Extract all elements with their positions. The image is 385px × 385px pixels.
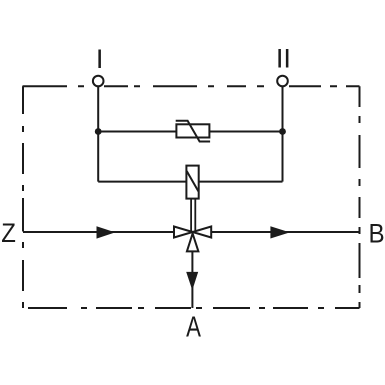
- open triangle below valve: [187, 234, 199, 252]
- port I circle: [93, 76, 104, 87]
- wire from port I down to lower rail: [97, 87, 99, 182]
- enclosure border left (dash-dot): [22, 86, 24, 308]
- enclosure border top (dash-dot): [23, 85, 360, 87]
- junction dot left: [95, 128, 102, 135]
- flow arrow on B wire: [270, 226, 289, 238]
- wire valve to B: [211, 231, 359, 233]
- wire from port II down to lower rail: [282, 87, 284, 182]
- double-line stem right: [194, 199, 196, 231]
- metering valve body: [186, 166, 198, 199]
- double-line stem left: [190, 199, 192, 231]
- junction dot right: [279, 128, 286, 135]
- metering valve diagonal: [187, 171, 199, 192]
- port II circle: [277, 76, 288, 87]
- wire upper rail: [98, 131, 282, 133]
- svg-text:B: B: [369, 219, 385, 249]
- svg-text:I: I: [96, 43, 104, 74]
- svg-text:II: II: [276, 43, 291, 74]
- valve right triangle: [193, 227, 212, 238]
- enclosure border right (dash-dot): [359, 86, 361, 308]
- svg-text:A: A: [186, 312, 201, 343]
- svg-text:Z: Z: [1, 219, 16, 249]
- orifice diagonal with hooks: [176, 121, 210, 142]
- enclosure border bottom (dash-dot): [28, 307, 360, 309]
- wire valve to A: [191, 251, 193, 308]
- wire Z to valve: [23, 231, 174, 233]
- flow arrow on Z wire: [97, 226, 116, 238]
- flow arrow on A wire: [186, 272, 198, 290]
- orifice (restrictor) body: [176, 124, 209, 137]
- wire lower rail: [98, 181, 282, 183]
- valve left triangle: [174, 227, 193, 238]
